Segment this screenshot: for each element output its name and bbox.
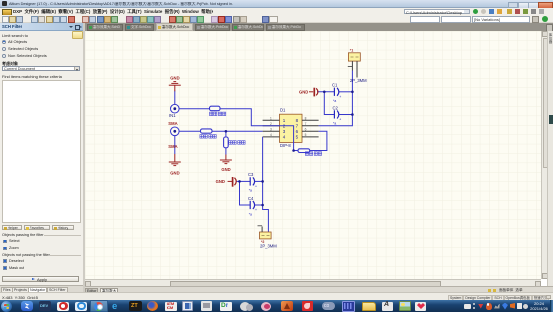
- svg-text:7: 7: [305, 122, 307, 126]
- svg-text:D1: D1: [280, 108, 286, 113]
- svg-text:GND: GND: [221, 167, 230, 172]
- svg-text:+: +: [339, 95, 341, 99]
- svg-text:*a: *a: [333, 122, 336, 126]
- svg-text:+: +: [339, 118, 341, 122]
- svg-text:*a: *a: [333, 99, 336, 103]
- svg-text:*1: *1: [350, 49, 353, 53]
- svg-text:2P_3MM: 2P_3MM: [350, 78, 367, 83]
- svg-text:GND: GND: [299, 90, 308, 95]
- svg-text:C4: C4: [248, 196, 254, 201]
- svg-text:C2: C2: [333, 106, 339, 111]
- svg-text:2P_3MM: 2P_3MM: [260, 243, 277, 248]
- svg-text:C1: C1: [332, 83, 338, 88]
- svg-text:C3: C3: [248, 172, 254, 177]
- svg-text:GND: GND: [216, 179, 225, 184]
- svg-text:*a: *a: [249, 212, 252, 216]
- svg-text:+: +: [255, 208, 257, 212]
- svg-text:GND: GND: [170, 170, 179, 175]
- svg-text:5: 5: [305, 133, 307, 137]
- svg-text:8: 8: [305, 117, 307, 121]
- svg-text:SMA: SMA: [168, 144, 177, 149]
- svg-text:2: 2: [270, 122, 272, 126]
- svg-text:4: 4: [270, 133, 272, 137]
- svg-text:3: 3: [270, 128, 272, 132]
- svg-text:SMA: SMA: [168, 121, 177, 126]
- svg-text:IN1: IN1: [169, 113, 176, 118]
- svg-text:6: 6: [305, 128, 307, 132]
- svg-text:DIP-8: DIP-8: [280, 143, 291, 148]
- svg-text:+: +: [255, 185, 257, 189]
- svg-text:*a: *a: [249, 189, 252, 193]
- svg-text:1: 1: [270, 117, 272, 121]
- svg-text:GND: GND: [170, 76, 179, 81]
